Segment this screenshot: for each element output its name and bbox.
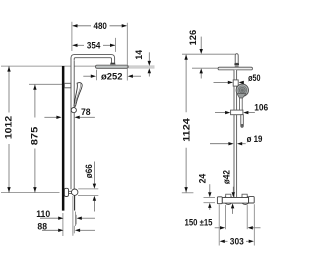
svg-text:480: 480 (94, 21, 107, 31)
top reference line (182, 53, 235, 55)
dim 303 (224, 240, 227, 242)
svg-text:14: 14 (134, 50, 144, 60)
svg-text:78: 78 (81, 107, 91, 117)
svg-text:ø252: ø252 (101, 71, 123, 81)
dim 78 (44, 116, 56, 118)
1124 bottom tick (182, 192, 194, 194)
reference line bottom (valve level) (1, 192, 60, 194)
svg-text:106: 106 (254, 103, 268, 113)
dim 14 (148, 52, 150, 61)
riser pipe (71, 57, 74, 190)
hose connector stub (241, 115, 244, 128)
valve (side): wall escutcheon (64, 188, 68, 196)
overhead shower disc (side) (96, 65, 129, 68)
reference line 875 top (29, 83, 64, 85)
dim 1124 (185, 55, 187, 113)
wall bracket (64, 83, 71, 88)
valve front: escutcheon circles (224, 196, 233, 205)
wall (62, 66, 65, 211)
reference line top (shower head level) (1, 65, 96, 67)
svg-text:110: 110 (36, 209, 50, 219)
dim 150+-15 extension lines (225, 205, 227, 229)
dim 480 extension lines (71, 22, 73, 51)
svg-text:ø50: ø50 (248, 73, 260, 83)
dim o50 (214, 81, 229, 83)
dim 354 (73, 44, 84, 46)
svg-text:150 ±15: 150 ±15 (185, 218, 213, 228)
dim 106 (215, 112, 226, 114)
dim o66 (93, 162, 95, 185)
svg-text:ø42: ø42 (222, 170, 232, 184)
svg-text:354: 354 (87, 40, 100, 50)
valve stem (69, 190, 72, 192)
svg-text:ø66: ø66 (84, 164, 94, 178)
slider bracket (231, 110, 243, 115)
arm stem (front) (235, 54, 238, 64)
svg-text:88: 88 (37, 221, 47, 231)
svg-text:24: 24 (198, 174, 208, 184)
dim 24 (209, 184, 211, 193)
dim 303 extension lines (218, 205, 220, 246)
stem nut (234, 63, 239, 65)
svg-text:1124: 1124 (182, 118, 192, 142)
svg-text:1012: 1012 (4, 116, 14, 139)
dim 126 (200, 37, 202, 50)
valve body circle (o66) (72, 189, 78, 195)
holder square (233, 80, 238, 86)
valve left cap (217, 197, 222, 204)
supply nut right (242, 194, 247, 198)
dim 150+-15 (215, 227, 221, 229)
hand shower (side) (74, 83, 82, 107)
holder knob (71, 108, 76, 113)
hand shower neck cone (237, 94, 246, 99)
svg-text:875: 875 (29, 127, 39, 146)
dim 126 tick to disc (192, 67, 218, 69)
overhead disc (front) (218, 67, 252, 70)
svg-text:303: 303 (230, 236, 244, 246)
dim 110 (40, 217, 59, 219)
shower arm gooseneck (71, 55, 115, 64)
dim 1012 (8, 66, 10, 112)
dim 480 (73, 25, 91, 27)
dim o252 extension left (95, 70, 97, 81)
tick lines right of disc (14 dim) (128, 65, 154, 67)
hose below valve (74, 195, 76, 210)
valve body (222, 198, 248, 204)
dim 354 extension right (115, 38, 117, 52)
arm nut (110, 63, 115, 65)
svg-text:ø 19: ø 19 (247, 134, 263, 144)
dim 24 ticks (204, 197, 216, 199)
dim o66 ticks (78, 188, 98, 190)
dim o19 (210, 143, 229, 145)
hand shower head (front, circles) (236, 84, 248, 96)
wall extension line below (62, 213, 64, 236)
hand shower handle (240, 98, 243, 111)
svg-text:126: 126 (188, 30, 198, 46)
dim o42 (232, 187, 234, 193)
riser pipe (front) (234, 70, 237, 197)
dim 875 (34, 84, 36, 117)
dim 88 (42, 229, 59, 231)
supply nut left (226, 194, 231, 198)
valve right cap (249, 197, 255, 203)
dim o252 (83, 75, 91, 77)
